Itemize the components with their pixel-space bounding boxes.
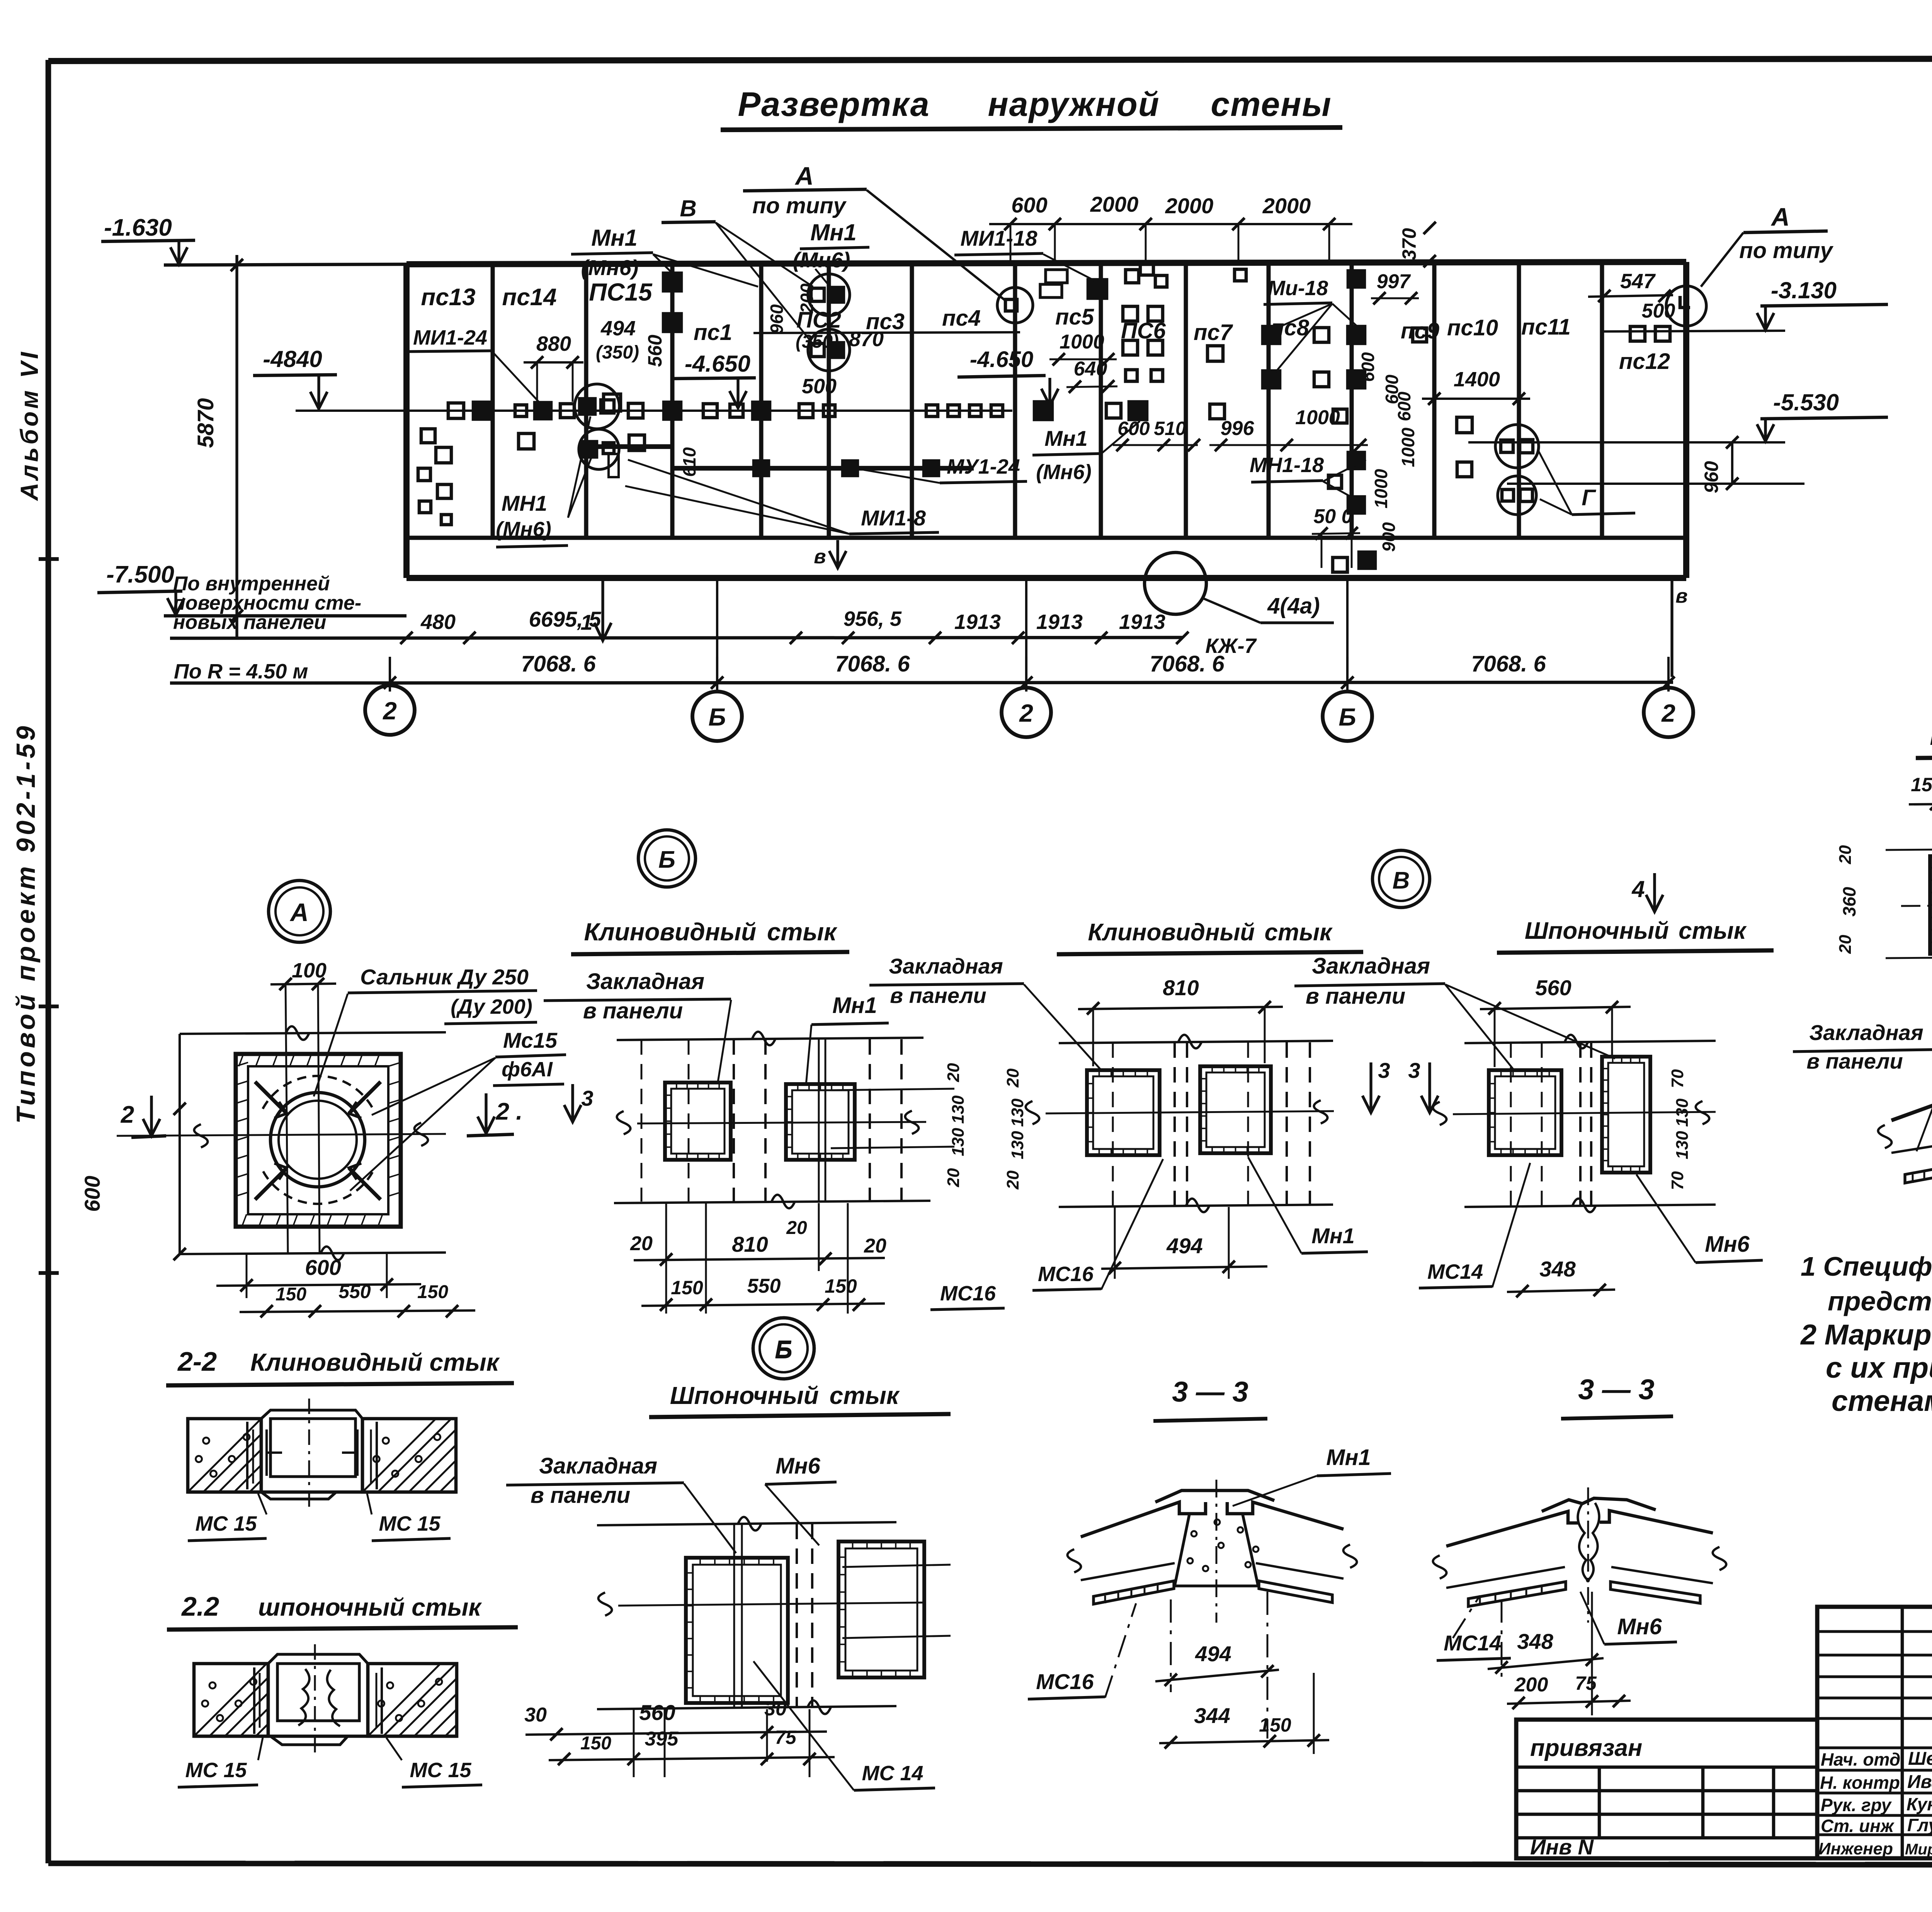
svg-text:-1.630: -1.630 [104, 214, 172, 241]
detail A inner square [248, 1066, 388, 1214]
V-left extra dashed verticals [1112, 1042, 1114, 1205]
V-right plate left [1489, 1070, 1561, 1155]
axis drop lines below panel block [716, 580, 718, 692]
svg-text:600: 600 [1117, 418, 1150, 439]
2-2 klinovidny joint profile [261, 1410, 362, 1419]
svg-text:МН1: МН1 [502, 491, 547, 515]
svg-text:с их привязкой, указанные в: с их привязкой, указанные в скобках, отн… [1826, 1351, 1932, 1384]
svg-text:130: 130 [949, 1128, 968, 1156]
svg-text:900: 900 [1379, 522, 1399, 552]
detail A dashed circle [263, 1076, 372, 1109]
3-3 left section drawing [1155, 1491, 1274, 1502]
svg-text:75: 75 [775, 1727, 797, 1748]
svg-text:1913: 1913 [1036, 610, 1083, 634]
svg-text:Мн6: Мн6 [776, 1453, 820, 1479]
V-right dashed joints [1579, 1042, 1582, 1205]
embed squares PS12 pair [1630, 326, 1645, 341]
svg-text:в: в [814, 546, 826, 568]
svg-text:Мн1: Мн1 [832, 993, 877, 1018]
axis dimension line row 2 [170, 682, 1673, 683]
svg-text:7068. 6: 7068. 6 [521, 651, 596, 676]
svg-text:Клиновидный стык: Клиновидный стык [1088, 919, 1333, 946]
V-right bottom extension [1464, 1205, 1716, 1207]
svg-text:510: 510 [1154, 418, 1186, 439]
axis circle 2 third [1644, 688, 1693, 737]
rib level line -3.130 left segment [753, 332, 1020, 333]
detail B level lines right [831, 1089, 954, 1090]
section 4-4 left drawing [1891, 1065, 1932, 1120]
junction circle pair upper PS1-PS2 [808, 274, 850, 316]
svg-text:75: 75 [1575, 1672, 1597, 1694]
3-3 right bottom flanges [1468, 1582, 1566, 1606]
svg-text:Шпоночный стык: Шпоночный стык [670, 1382, 900, 1409]
svg-text:А: А [794, 161, 814, 190]
svg-text:Б: Б [775, 1335, 792, 1363]
svg-text:50 0: 50 0 [1313, 505, 1352, 528]
marker row centerline -4.840 [296, 410, 1012, 412]
svg-text:МИ1-18: МИ1-18 [960, 226, 1037, 250]
svg-text:Типовой проект 902-1-59: Типовой проект 902-1-59 [11, 723, 41, 1123]
detail circle B bottom [753, 1318, 814, 1379]
main title underline [721, 127, 1342, 130]
V-right plate right vertical [1602, 1057, 1650, 1173]
detail marker circle B double [638, 830, 696, 887]
svg-text:Мирошникова: Мирошникова [1905, 1841, 1932, 1858]
svg-text:Развертка: Развертка [738, 85, 930, 123]
svg-text:Мн1: Мн1 [1311, 1224, 1355, 1248]
2-2 klinovidny right concrete block [362, 1419, 456, 1492]
junction circle pair on marker row [575, 384, 619, 429]
svg-text:100: 100 [292, 959, 327, 982]
svg-text:640: 640 [1074, 358, 1107, 380]
V-right top extension [1464, 1041, 1716, 1043]
bottom B right plate [838, 1541, 924, 1677]
2-2 klinovidny left concrete block [188, 1419, 261, 1492]
2-2 klinovidny bottom line [188, 1491, 456, 1494]
svg-text:-4.650: -4.650 [685, 351, 750, 377]
svg-text:2: 2 [121, 1101, 134, 1128]
svg-text:А: А [289, 898, 309, 926]
svg-text:150: 150 [825, 1275, 857, 1297]
svg-text:-4.650: -4.650 [970, 347, 1033, 372]
svg-text:Мн1: Мн1 [810, 219, 857, 245]
svg-text:956, 5: 956, 5 [844, 607, 902, 631]
svg-text:пс5: пс5 [1055, 304, 1094, 330]
svg-text:610: 610 [679, 447, 699, 477]
bottom B right level lines [842, 1565, 951, 1567]
detail B right plate [786, 1084, 855, 1160]
3-3 left centerline [1216, 1480, 1218, 1623]
svg-text:2000: 2000 [1165, 194, 1214, 218]
3-3 left bottom flanges [1094, 1581, 1174, 1604]
dim line under 996-1000 [1209, 444, 1368, 446]
scattered embed squares PS13 column [421, 429, 435, 443]
3-3 right centerline [1587, 1487, 1589, 1623]
svg-text:560: 560 [1535, 976, 1571, 1000]
svg-text:-4840: -4840 [263, 346, 322, 372]
embed squares PS9 [1413, 328, 1427, 342]
svg-text:1913: 1913 [954, 610, 1001, 634]
svg-text:Инв N: Инв N [1530, 1835, 1594, 1859]
bottom B left plate [686, 1558, 788, 1703]
left plan C-plate left [1930, 856, 1932, 954]
svg-text:пс13: пс13 [421, 284, 475, 311]
embed squares PS10 column [1457, 417, 1472, 433]
svg-text:Мс15: Мс15 [503, 1028, 558, 1052]
V-left dashed joints [1173, 1042, 1176, 1205]
detail A outer square [236, 1054, 401, 1227]
svg-text:в панели: в панели [1306, 984, 1405, 1009]
svg-text:МС14: МС14 [1427, 1260, 1483, 1283]
2-2 klinovidny centerline [308, 1399, 310, 1511]
svg-text:ПС15: ПС15 [589, 278, 653, 306]
embed cluster MI1-18 top [1046, 270, 1067, 283]
axis circle 2 second [1002, 688, 1051, 737]
detail B lower guides [665, 1203, 667, 1314]
svg-text:в панели: в панели [583, 998, 683, 1023]
svg-text:997: 997 [1377, 270, 1411, 293]
svg-text:600: 600 [80, 1176, 104, 1212]
svg-text:2 .: 2 . [496, 1098, 523, 1125]
svg-text:560: 560 [644, 335, 666, 367]
embed squares PS5 PS6 grid [1126, 270, 1139, 283]
svg-text:1000: 1000 [1060, 331, 1104, 353]
svg-text:В: В [1393, 867, 1410, 894]
svg-text:20: 20 [1003, 1068, 1022, 1088]
svg-text:960: 960 [767, 304, 787, 334]
svg-text:пс14: пс14 [502, 284, 556, 311]
svg-text:348: 348 [1539, 1257, 1576, 1281]
svg-text:547: 547 [1620, 270, 1656, 293]
svg-text:МУ1-24: МУ1-24 [947, 455, 1020, 478]
svg-text:Иванов: Иванов [1907, 1772, 1932, 1792]
svg-text:2-2: 2-2 [177, 1346, 217, 1377]
svg-text:Б: Б [1338, 703, 1356, 731]
svg-text:А: А [1770, 202, 1790, 231]
svg-text:2: 2 [1661, 699, 1675, 727]
detail A gland circle inner [279, 1101, 357, 1179]
svg-text:20: 20 [1836, 845, 1855, 864]
svg-text:В: В [680, 195, 696, 221]
svg-text:2: 2 [1019, 699, 1033, 727]
detail B extra dashed verticals [641, 1039, 643, 1202]
detail A wall hatch ticks [239, 1054, 243, 1066]
V-left centerline [1046, 1111, 1334, 1113]
2.2 shponochny centerline [314, 1644, 316, 1755]
embed squares on line PS15-PS1 [663, 273, 681, 291]
junction circles G right [1495, 425, 1539, 468]
svg-text:5870: 5870 [193, 398, 218, 448]
svg-text:в: в [1675, 585, 1687, 607]
svg-text:шпоночный стык: шпоночный стык [258, 1593, 482, 1621]
svg-text:810: 810 [1163, 976, 1199, 1000]
level line -1.630 [164, 264, 406, 265]
detail A bottom extension line [180, 1253, 446, 1254]
svg-text:960: 960 [1701, 461, 1722, 493]
svg-text:Нач. отд: Нач. отд [1821, 1749, 1900, 1769]
svg-text:15: 15 [1911, 774, 1932, 795]
svg-text:по типу: по типу [1739, 238, 1833, 263]
svg-text:МИ1-8: МИ1-8 [861, 506, 926, 530]
sheet frame bottom border [48, 1863, 1932, 1865]
svg-text:Рук. гру: Рук. гру [1821, 1795, 1892, 1815]
svg-text:1000: 1000 [1371, 469, 1391, 508]
svg-text:560: 560 [639, 1700, 675, 1725]
svg-text:2000: 2000 [1090, 192, 1139, 216]
svg-text:МИ1-24: МИ1-24 [413, 326, 487, 349]
detail A top extension line [180, 1032, 446, 1034]
svg-text:6695, 5: 6695, 5 [529, 607, 602, 631]
svg-text:70: 70 [1668, 1069, 1687, 1088]
V-right centerline [1453, 1112, 1716, 1114]
svg-text:ф6АI: ф6АI [502, 1058, 553, 1081]
bottom B top extension [597, 1522, 896, 1525]
title block central staff table [1817, 1607, 1932, 1858]
svg-text:494: 494 [1166, 1234, 1202, 1258]
svg-text:Ст. инж: Ст. инж [1821, 1816, 1895, 1836]
svg-text:МС 15: МС 15 [195, 1512, 257, 1535]
detail B top extension line [617, 1038, 923, 1040]
svg-text:200: 200 [797, 283, 817, 313]
svg-text:(Мн6): (Мн6) [1036, 461, 1092, 484]
pipe centerlines vertical [286, 984, 288, 1253]
svg-text:(350): (350) [596, 342, 639, 363]
svg-text:Мн1: Мн1 [591, 225, 638, 251]
svg-text:пс1: пс1 [694, 320, 732, 345]
svg-text:Клиновидный стык: Клиновидный стык [250, 1348, 500, 1376]
svg-text:МН1-18: МН1-18 [1250, 454, 1324, 477]
3-3 left concrete speckles [1191, 1531, 1197, 1536]
detail marker circle V double [1372, 850, 1430, 908]
svg-text:360: 360 [1839, 887, 1859, 916]
detail B joint dashed lines [733, 1039, 735, 1202]
svg-text:-3.130: -3.130 [1771, 277, 1837, 303]
svg-text:в панели: в панели [531, 1483, 630, 1508]
svg-text:370: 370 [1398, 228, 1420, 260]
svg-text:4: 4 [1631, 876, 1645, 902]
svg-text:996: 996 [1221, 417, 1255, 440]
svg-text:130: 130 [1008, 1098, 1027, 1127]
svg-text:Мн6: Мн6 [1617, 1614, 1662, 1639]
left plan extension lines [1886, 848, 1932, 850]
V-right extra dashed verticals [1510, 1042, 1512, 1205]
svg-text:130: 130 [1008, 1131, 1027, 1159]
detail B bottom extension line [614, 1201, 930, 1203]
svg-text:Инженер: Инженер [1818, 1839, 1893, 1858]
embed squares bottom near line 3498 [1333, 557, 1347, 572]
svg-text:Глуменко: Глуменко [1907, 1815, 1932, 1835]
svg-text:3: 3 [1408, 1058, 1420, 1083]
embed squares PS7 [1207, 346, 1223, 361]
V-left plate left [1087, 1070, 1160, 1155]
svg-text:20: 20 [786, 1218, 807, 1238]
svg-text:1913: 1913 [1119, 610, 1165, 634]
svg-text:представлена на л. КЖ-6: представлена на л. КЖ-6 [1828, 1286, 1932, 1316]
level line 960 lower segment [1507, 483, 1804, 485]
svg-text:Г: Г [1582, 485, 1596, 510]
svg-text:7068. 6: 7068. 6 [1471, 651, 1546, 676]
level line -7.500 [164, 614, 406, 618]
svg-text:20: 20 [630, 1232, 653, 1255]
svg-text:395: 395 [645, 1728, 679, 1750]
embed squares PS8 cluster Mi-18 [1263, 326, 1280, 343]
junction circle A po tipu on line 2627 [997, 287, 1033, 323]
svg-text:2000: 2000 [1262, 194, 1311, 218]
svg-text:7068. 6: 7068. 6 [1150, 651, 1225, 676]
2.2 shponochny bottom line [194, 1735, 457, 1738]
svg-text:150: 150 [671, 1277, 703, 1298]
svg-text:пс12: пс12 [1619, 349, 1670, 374]
svg-text:880: 880 [536, 332, 571, 355]
V-left plate right [1200, 1066, 1271, 1153]
svg-text:Б: Б [708, 703, 726, 731]
svg-text:344: 344 [1194, 1703, 1230, 1728]
svg-text:20: 20 [944, 1063, 963, 1082]
svg-text:150: 150 [1259, 1714, 1291, 1736]
svg-text:по типу: по типу [752, 193, 847, 218]
axis circle B below detail [753, 1318, 814, 1379]
callout 4(4a) KZh-7 [1145, 552, 1206, 614]
svg-text:130: 130 [949, 1095, 968, 1124]
svg-text:20: 20 [1836, 935, 1855, 954]
svg-text:МС 14: МС 14 [862, 1762, 923, 1785]
svg-text:3 — 3: 3 — 3 [1578, 1373, 1654, 1406]
svg-text:МС 15: МС 15 [410, 1759, 471, 1782]
svg-text:МС 15: МС 15 [379, 1512, 440, 1535]
2.2 shponochny left concrete block [194, 1664, 268, 1736]
wall panel block outline [406, 262, 1686, 264]
4-4 left bottom flange plates [1905, 1159, 1932, 1183]
detail B solid verticals [818, 1039, 820, 1202]
svg-text:3: 3 [581, 1086, 593, 1110]
svg-text:494: 494 [600, 317, 636, 340]
2.2 shponochny joint profile [268, 1654, 368, 1664]
svg-text:(Мн6): (Мн6) [496, 518, 551, 541]
axis circle B second [1323, 692, 1372, 741]
svg-text:Закладная: Закладная [1809, 1020, 1923, 1045]
svg-text:пс10: пс10 [1447, 315, 1498, 340]
2.2 shponochny right concrete block [368, 1664, 457, 1736]
svg-text:810: 810 [732, 1232, 768, 1256]
svg-text:(350): (350) [796, 331, 839, 352]
svg-text:200: 200 [1514, 1674, 1548, 1696]
thick joint segment with embed marks [672, 466, 974, 471]
svg-text:Шейко: Шейко [1908, 1749, 1932, 1769]
svg-text:550: 550 [338, 1281, 371, 1302]
svg-text:По R = 4.50 м: По R = 4.50 м [174, 660, 308, 683]
detail A corner braces [255, 1082, 287, 1113]
svg-text:Мн6: Мн6 [1705, 1232, 1750, 1257]
svg-text:600: 600 [1394, 391, 1414, 421]
svg-text:20: 20 [864, 1235, 886, 1257]
svg-text:150: 150 [276, 1284, 306, 1305]
bottom B dashed joints [796, 1524, 798, 1708]
svg-text:новых панелей: новых панелей [173, 611, 326, 634]
left margin tick 3 [39, 1271, 59, 1275]
svg-text:пс11: пс11 [1521, 314, 1571, 340]
svg-text:1000: 1000 [1295, 406, 1340, 429]
detail A gland circle outer [270, 1093, 365, 1187]
svg-text:3: 3 [1378, 1058, 1390, 1083]
svg-text:стенам со шпоночным стыком.: стенам со шпоночным стыком. [1832, 1385, 1932, 1417]
svg-text:стены: стены [1211, 85, 1332, 123]
svg-text:Б: Б [658, 846, 675, 873]
level line -5.530 segment [1468, 441, 1785, 444]
svg-text:30: 30 [524, 1704, 547, 1726]
svg-text:870: 870 [849, 328, 884, 351]
left margin tick 2 [39, 1004, 59, 1008]
detail B left plate [665, 1083, 731, 1160]
svg-text:Сальник Ду 250: Сальник Ду 250 [360, 965, 529, 989]
svg-text:20: 20 [944, 1168, 963, 1187]
svg-text:Н. контр.: Н. контр. [1820, 1773, 1905, 1793]
svg-text:-7.500: -7.500 [106, 561, 174, 588]
svg-text:4(4а): 4(4а) [1267, 593, 1320, 619]
svg-text:Мн1: Мн1 [1044, 426, 1088, 450]
svg-text:в панели: в панели [890, 983, 986, 1008]
svg-text:Закладная: Закладная [889, 954, 1003, 978]
4-4 left panel bottom edges [1891, 1143, 1932, 1153]
left margin tick 1 [39, 557, 59, 561]
svg-text:480: 480 [420, 610, 456, 634]
left plan centerline horizontal [1901, 904, 1932, 906]
panel divider lines [491, 263, 495, 538]
floor line inside panel block [406, 536, 1686, 540]
2.2 keyed joint squiggle [298, 1669, 310, 1725]
top dimension line 600-2000-2000-2000 [989, 223, 1352, 225]
svg-text:в панели: в панели [1806, 1049, 1903, 1073]
svg-text:130: 130 [1673, 1098, 1692, 1127]
svg-text:(Мн6): (Мн6) [793, 248, 850, 272]
svg-text:пс7: пс7 [1194, 320, 1233, 345]
svg-text:494: 494 [1195, 1642, 1231, 1666]
svg-text:1000: 1000 [1398, 427, 1418, 467]
svg-text:Клиновидный стык: Клиновидный стык [584, 918, 838, 946]
svg-text:600: 600 [305, 1255, 341, 1280]
sheet frame top border [48, 58, 1932, 61]
svg-text:Мн1: Мн1 [1326, 1445, 1371, 1470]
svg-text:Закладная: Закладная [1312, 953, 1430, 979]
detail marker circle A [269, 880, 330, 942]
bottom B centerline [618, 1603, 923, 1606]
svg-text:500: 500 [802, 375, 837, 398]
svg-text:3 — 3: 3 — 3 [1172, 1376, 1248, 1408]
svg-text:600: 600 [1358, 352, 1378, 382]
svg-text:Кунцевич: Кунцевич [1906, 1794, 1932, 1814]
section mark 1 below block [601, 580, 604, 641]
section mark v right [1670, 578, 1673, 677]
panel dimension line row 1 [170, 637, 1182, 638]
svg-text:500: 500 [1642, 300, 1675, 322]
embed marker squares row at level -4.840 [473, 402, 490, 419]
axis circle B first [692, 692, 742, 741]
svg-text:7068. 6: 7068. 6 [835, 651, 910, 676]
svg-text:600: 600 [1011, 193, 1047, 217]
title block left box privyazan [1516, 1720, 1817, 1858]
svg-text:20: 20 [1003, 1170, 1022, 1190]
bottom B bottom extension [597, 1706, 896, 1709]
detail A left dim line 600 [179, 1034, 181, 1254]
V-left bottom extension [1059, 1205, 1333, 1207]
svg-text:1400: 1400 [1454, 368, 1500, 391]
svg-text:(Мн6): (Мн6) [581, 255, 639, 280]
svg-text:2: 2 [383, 697, 397, 725]
svg-text:Закладная: Закладная [586, 969, 704, 994]
svg-text:(Ду 200): (Ду 200) [451, 995, 532, 1018]
svg-text:-5.530: -5.530 [1773, 389, 1839, 415]
svg-text:70: 70 [1668, 1171, 1687, 1190]
svg-text:наружной: наружной [988, 85, 1160, 123]
